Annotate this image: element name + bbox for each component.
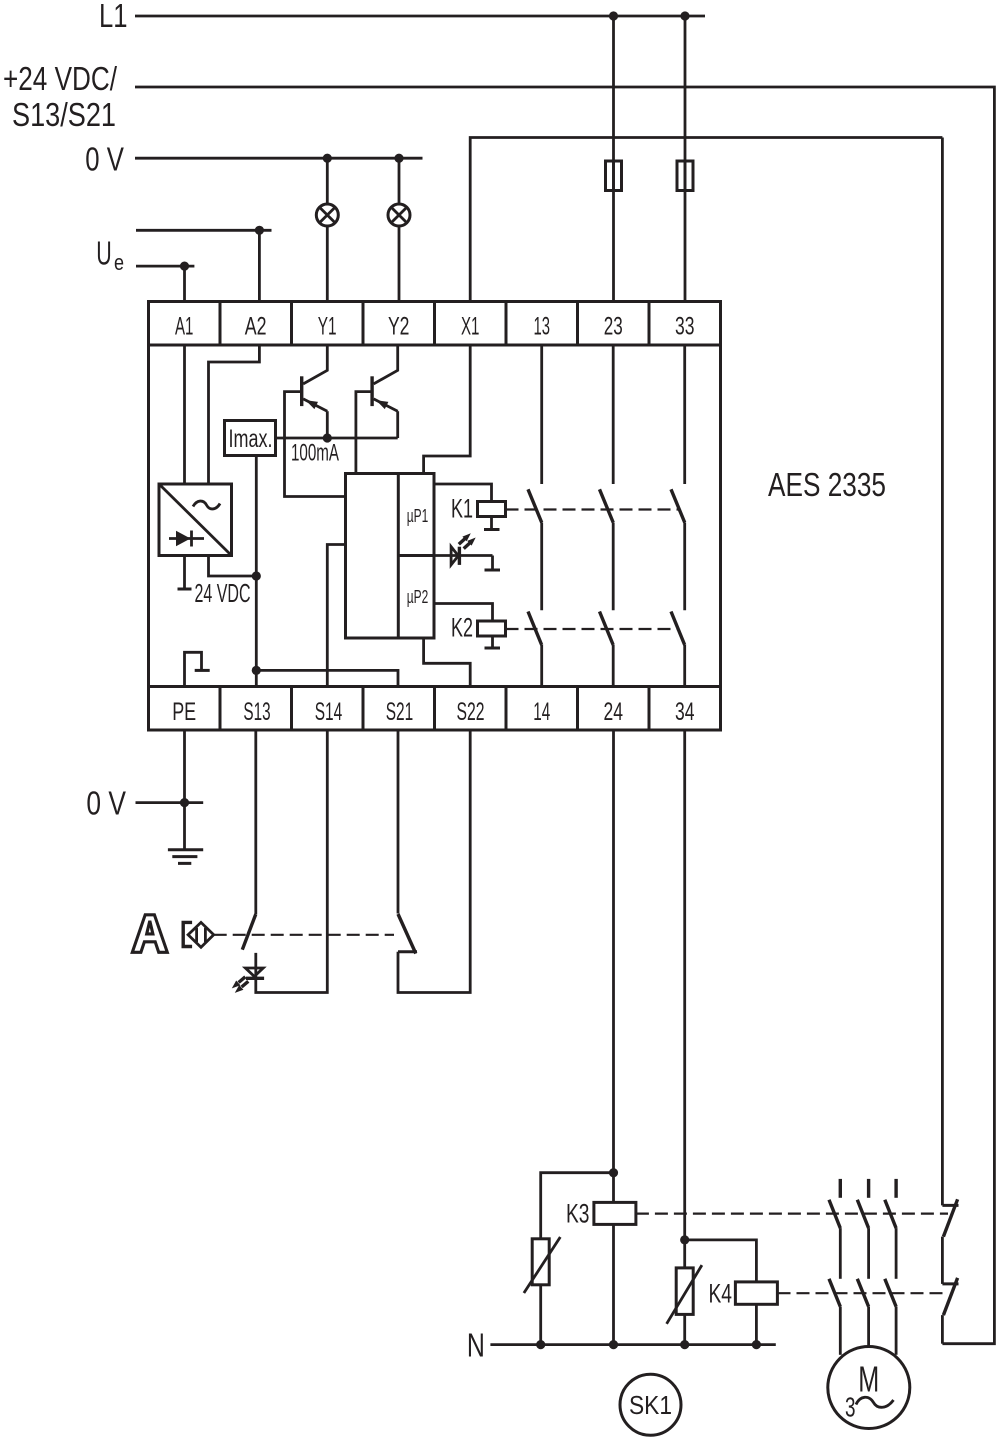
contact K4.1 phase L1: [829, 1279, 840, 1307]
top terminal cell dividers: [220, 302, 649, 346]
wire L1 rail: [135, 15, 705, 18]
PE internal hook symbol: [185, 652, 202, 687]
NC aux contact K3 (feedback): [942, 1204, 958, 1207]
bottom terminal cell dividers: [220, 687, 649, 731]
wire PE to earth: [183, 730, 186, 850]
junction K4 at N: [752, 1340, 761, 1349]
wire sensor NC to S22: [398, 730, 470, 993]
svg-text:AES 2335: AES 2335: [768, 466, 886, 503]
contact K1.1 (13-14): [540, 345, 543, 484]
svg-text:µP1: µP1: [407, 506, 429, 526]
terminal strip bottom divider line: [149, 685, 721, 688]
wire Ue stub: [136, 265, 194, 268]
diode inside power supply: [169, 537, 204, 540]
junction 24 at N: [609, 1340, 618, 1349]
LED D2 sensor indicator: [245, 968, 263, 976]
fuse F2: [677, 161, 693, 191]
svg-text:A2: A2: [245, 313, 267, 341]
power supply U1: [159, 484, 232, 556]
K3 actuation dashed link: [636, 1212, 948, 1214]
svg-text:33: 33: [675, 313, 695, 341]
transistor Q1 (Y1 driver): [303, 345, 327, 384]
relay module AES 2335 outline: [149, 302, 721, 731]
ground bar under K2: [485, 647, 501, 650]
wire 33 feeder: [684, 16, 687, 302]
ground bar under K1: [484, 528, 500, 531]
contact K2.2 (23-24 lower): [600, 612, 614, 646]
current limiter Imax block: [225, 421, 276, 456]
junction S13 node lower: [252, 666, 261, 675]
svg-text:A1: A1: [175, 313, 193, 341]
terminal strip top divider line: [149, 344, 721, 347]
svg-text:24 VDC: 24 VDC: [195, 578, 251, 608]
junction RV1 at N: [536, 1340, 545, 1349]
svg-text:K4: K4: [709, 1279, 733, 1309]
junction on L1 at 23 feeder: [609, 11, 618, 20]
motor M1: [828, 1347, 910, 1429]
wire Imax to transistor emitters: [276, 437, 398, 440]
svg-text:S14: S14: [315, 698, 343, 726]
junction Ue at A1: [180, 262, 189, 271]
svg-text:e: e: [114, 250, 124, 275]
relay coil K2: [434, 604, 493, 622]
contact K1.3 (33-34): [683, 345, 686, 484]
microprocessor block U2: [346, 474, 435, 639]
fuse F1: [606, 161, 622, 191]
svg-text:34: 34: [675, 698, 695, 726]
wire S13 node to S21 terminal: [256, 670, 398, 686]
wire S21 to sensor NC switch: [397, 730, 400, 914]
wire +24VDC rail and right-side drop to feedback loop bottom: [135, 87, 994, 1344]
wire X1 internal jog to uP block: [424, 345, 471, 474]
svg-text:K2: K2: [451, 613, 473, 643]
wire Q1 base to uP block: [285, 392, 346, 497]
svg-text:SK1: SK1: [629, 1390, 672, 1420]
varistor RV1: [532, 1239, 549, 1285]
svg-text:S21: S21: [386, 698, 414, 726]
svg-text:0 V: 0 V: [86, 785, 126, 822]
svg-text:100mA: 100mA: [291, 440, 339, 467]
K2 actuation dashed link: [506, 628, 680, 630]
transistor Q2 (Y2 driver): [374, 345, 398, 384]
contact K3.1 phase L1: [839, 1179, 842, 1198]
junction A2 stub: [255, 226, 264, 235]
wire A1 internal: [183, 345, 186, 484]
svg-text:L1: L1: [99, 0, 128, 34]
wire 0V rail: [135, 157, 423, 160]
wire X1 feedback top run: [470, 138, 942, 302]
contact K4.2 phase L2: [857, 1279, 868, 1307]
svg-text:M: M: [858, 1359, 879, 1400]
junction 34/K4 branch: [680, 1235, 689, 1244]
svg-text:U: U: [96, 234, 112, 271]
wire K4 coil branch: [685, 1240, 757, 1345]
junction 0V at Y1 lamp: [323, 154, 332, 163]
contact K3.2 phase L2: [867, 1179, 870, 1198]
LED D1 status: [434, 554, 493, 557]
svg-text:N: N: [467, 1327, 485, 1364]
junction 34 at N: [680, 1340, 689, 1349]
sensor actuator A label: [132, 915, 167, 953]
sensor icon bracket: [183, 922, 192, 946]
junction 100mA line at Y1: [323, 433, 332, 442]
junction 24/K3 branch: [609, 1168, 618, 1177]
svg-text:Y1: Y1: [318, 313, 337, 341]
svg-text:PE: PE: [172, 698, 196, 726]
svg-text:3: 3: [845, 1392, 856, 1423]
wire Imax down to S13 node: [255, 456, 258, 687]
svg-text:S22: S22: [457, 698, 485, 726]
contact K1.2 (23-24): [612, 345, 615, 484]
svg-text:24: 24: [603, 698, 623, 726]
svg-text:K1: K1: [451, 494, 473, 524]
wire uP block to S22 terminal: [424, 638, 471, 687]
svg-text:X1: X1: [461, 313, 480, 341]
wire power supply to S13 node: [209, 556, 257, 577]
junction 0V at Y2 lamp: [394, 154, 403, 163]
contact K4.3 phase L3: [885, 1279, 896, 1307]
wire A2 supply stub: [136, 229, 272, 232]
wire 34 terminal to N: [683, 730, 686, 1345]
K4 actuation dashed link: [778, 1292, 949, 1294]
contact K2.1 (13-14 lower): [528, 612, 542, 646]
svg-text:13: 13: [533, 313, 550, 341]
svg-text:23: 23: [604, 313, 623, 341]
junction on L1 at 33 feeder: [680, 11, 689, 20]
sensor NC blade (S21-S22): [398, 914, 416, 954]
junction S13 node upper: [252, 571, 261, 580]
sensor actuation dashed link: [214, 934, 394, 936]
junction 0V-PE: [180, 798, 189, 807]
ground earth symbol: [168, 850, 203, 864]
lamp H1 on Y1: [326, 158, 329, 204]
wire A2 internal jog: [209, 345, 260, 484]
wire N rail: [490, 1343, 775, 1346]
ground bar under LED D1: [485, 569, 501, 572]
varistor RV2: [676, 1268, 693, 1315]
relay coil K1: [434, 484, 492, 502]
svg-text:Imax.: Imax.: [229, 425, 273, 453]
sensor switch blade (S13-S14): [242, 914, 256, 950]
sensor icon diamond: [188, 922, 214, 947]
NC aux contact K4 (feedback): [942, 1282, 958, 1285]
svg-text:S13/S21: S13/S21: [12, 96, 116, 133]
svg-text:+24 VDC/: +24 VDC/: [3, 60, 118, 97]
wire A1 feeder: [183, 266, 186, 301]
contact K3.3 phase L3: [894, 1179, 897, 1198]
wire 24VDC output with polarity tick: [183, 556, 186, 590]
wire 24 terminal to N: [612, 730, 615, 1345]
wire S13 to sensor switch: [254, 730, 257, 914]
wire feedback drop: [941, 138, 944, 1206]
wire K3 varistor branch: [541, 1173, 614, 1345]
svg-text:0 V: 0 V: [85, 141, 124, 178]
wire 0V to PE: [136, 801, 204, 804]
svg-text:µP2: µP2: [407, 587, 429, 607]
wire sensor switch to S14: [256, 730, 327, 993]
wire S14 terminal to uP block: [327, 545, 345, 687]
svg-text:K3: K3: [566, 1199, 590, 1229]
svg-text:14: 14: [533, 698, 550, 726]
wire Q2 base to uP block: [356, 392, 372, 474]
indicator SK1: [620, 1374, 681, 1435]
wire A2 feeder: [258, 230, 261, 301]
svg-text:S13: S13: [243, 698, 270, 726]
K1 actuation dashed link: [506, 508, 680, 510]
contact K2.3 (33-34 lower): [671, 612, 685, 646]
lamp H2 on Y2: [398, 158, 401, 204]
wire 23 feeder: [612, 16, 615, 302]
svg-text:Y2: Y2: [388, 313, 410, 341]
